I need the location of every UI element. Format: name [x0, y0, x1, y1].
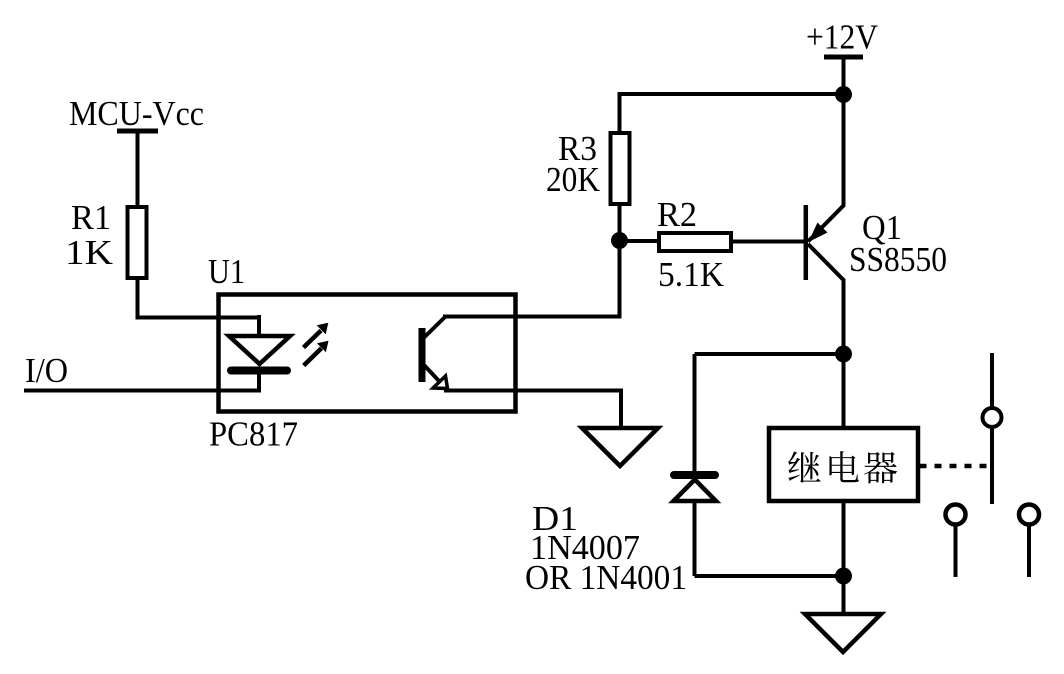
node junction at +12V: [835, 86, 852, 103]
wire diode bottom down: [693, 501, 697, 576]
svg-text:+12V: +12V: [806, 18, 878, 57]
wire relay bottom to junction: [842, 501, 846, 576]
svg-text:R1: R1: [71, 198, 111, 237]
svg-text:MCU-Vcc: MCU-Vcc: [69, 94, 204, 133]
wire U1 collector out to R3/R2 node: [443, 240, 620, 317]
diode D1 triangle: [674, 480, 717, 502]
wire LED anode drop: [257, 315, 261, 338]
diode U1 LED cathode bar: [231, 367, 287, 375]
contact stationary right circle: [1019, 505, 1039, 525]
wire U1 emitter diagonal: [424, 365, 439, 381]
wire Q1 collector diagonal: [808, 244, 844, 354]
svg-text:R2: R2: [657, 195, 697, 234]
transistor Q1 base bar: [804, 205, 809, 280]
label relay 器: [864, 452, 897, 484]
wire I/O line to LED cathode: [24, 370, 259, 391]
svg-text:5.1K: 5.1K: [658, 255, 724, 294]
wire R3 bottom to node: [618, 206, 622, 240]
svg-text:PC817: PC817: [209, 415, 298, 454]
arrow U1 emitter head: [433, 376, 448, 389]
wire +12V to junction: [842, 57, 846, 94]
wire MCU-Vcc bar to R1 top: [136, 131, 140, 205]
label relay 电: [829, 451, 858, 482]
ground U1 emitter: [582, 428, 658, 466]
arrow Q1 emitter head: [809, 223, 828, 243]
ground main: [805, 614, 881, 652]
diode U1 LED triangle: [229, 336, 290, 364]
wire stationary left lead: [954, 525, 958, 577]
wire U1 collector diagonal: [424, 317, 446, 338]
wire +12V junction to R3 top: [620, 94, 844, 131]
wire Q1 collector to relay top: [842, 354, 846, 428]
transistor U1 photo base bar: [419, 328, 426, 382]
arrow light emission 1: [304, 323, 329, 348]
svg-text:1K: 1K: [65, 233, 113, 272]
resistor R3: [611, 133, 630, 204]
wire R1 bottom to U1 LED anode: [138, 280, 260, 318]
label relay 继: [788, 451, 821, 483]
svg-text:I/O: I/O: [25, 351, 68, 390]
wire movable contact upper: [990, 353, 994, 407]
wire R2 right to Q1 base: [733, 240, 806, 244]
svg-text:OR 1N4001: OR 1N4001: [525, 558, 687, 597]
svg-text:SS8550: SS8550: [849, 240, 947, 279]
wire movable contact lower: [990, 428, 994, 504]
wire relay actuator dashed: [920, 464, 989, 469]
wire diode branch bottom to junction: [695, 574, 844, 578]
node R3/R2 junction: [611, 232, 628, 249]
node relay bottom junction: [835, 568, 852, 585]
wire Q1 emitter diagonal: [808, 94, 844, 242]
svg-text:20K: 20K: [546, 160, 600, 199]
wire U1 emitter out to ground: [444, 391, 621, 431]
contact movable circle: [983, 408, 1002, 427]
wire stationary right lead: [1027, 525, 1031, 577]
power MCU-Vcc rail bar: [117, 129, 158, 134]
arrow light emission 2: [304, 341, 329, 366]
node Q1 collector junction: [835, 346, 852, 363]
relay K1 box: [769, 428, 918, 501]
wire junction to diode branch top: [695, 352, 844, 356]
contact stationary left circle: [946, 505, 966, 525]
power +12V rail bar: [824, 55, 863, 60]
diode D1 cathode bar: [674, 471, 715, 479]
svg-text:U1: U1: [208, 252, 245, 291]
wire junction to ground: [842, 576, 846, 614]
wire diode branch down: [693, 354, 697, 471]
wire node to R2 left: [620, 239, 658, 243]
optocoupler U1 box: [219, 295, 516, 412]
resistor R2: [659, 233, 731, 251]
resistor R1: [128, 207, 147, 278]
